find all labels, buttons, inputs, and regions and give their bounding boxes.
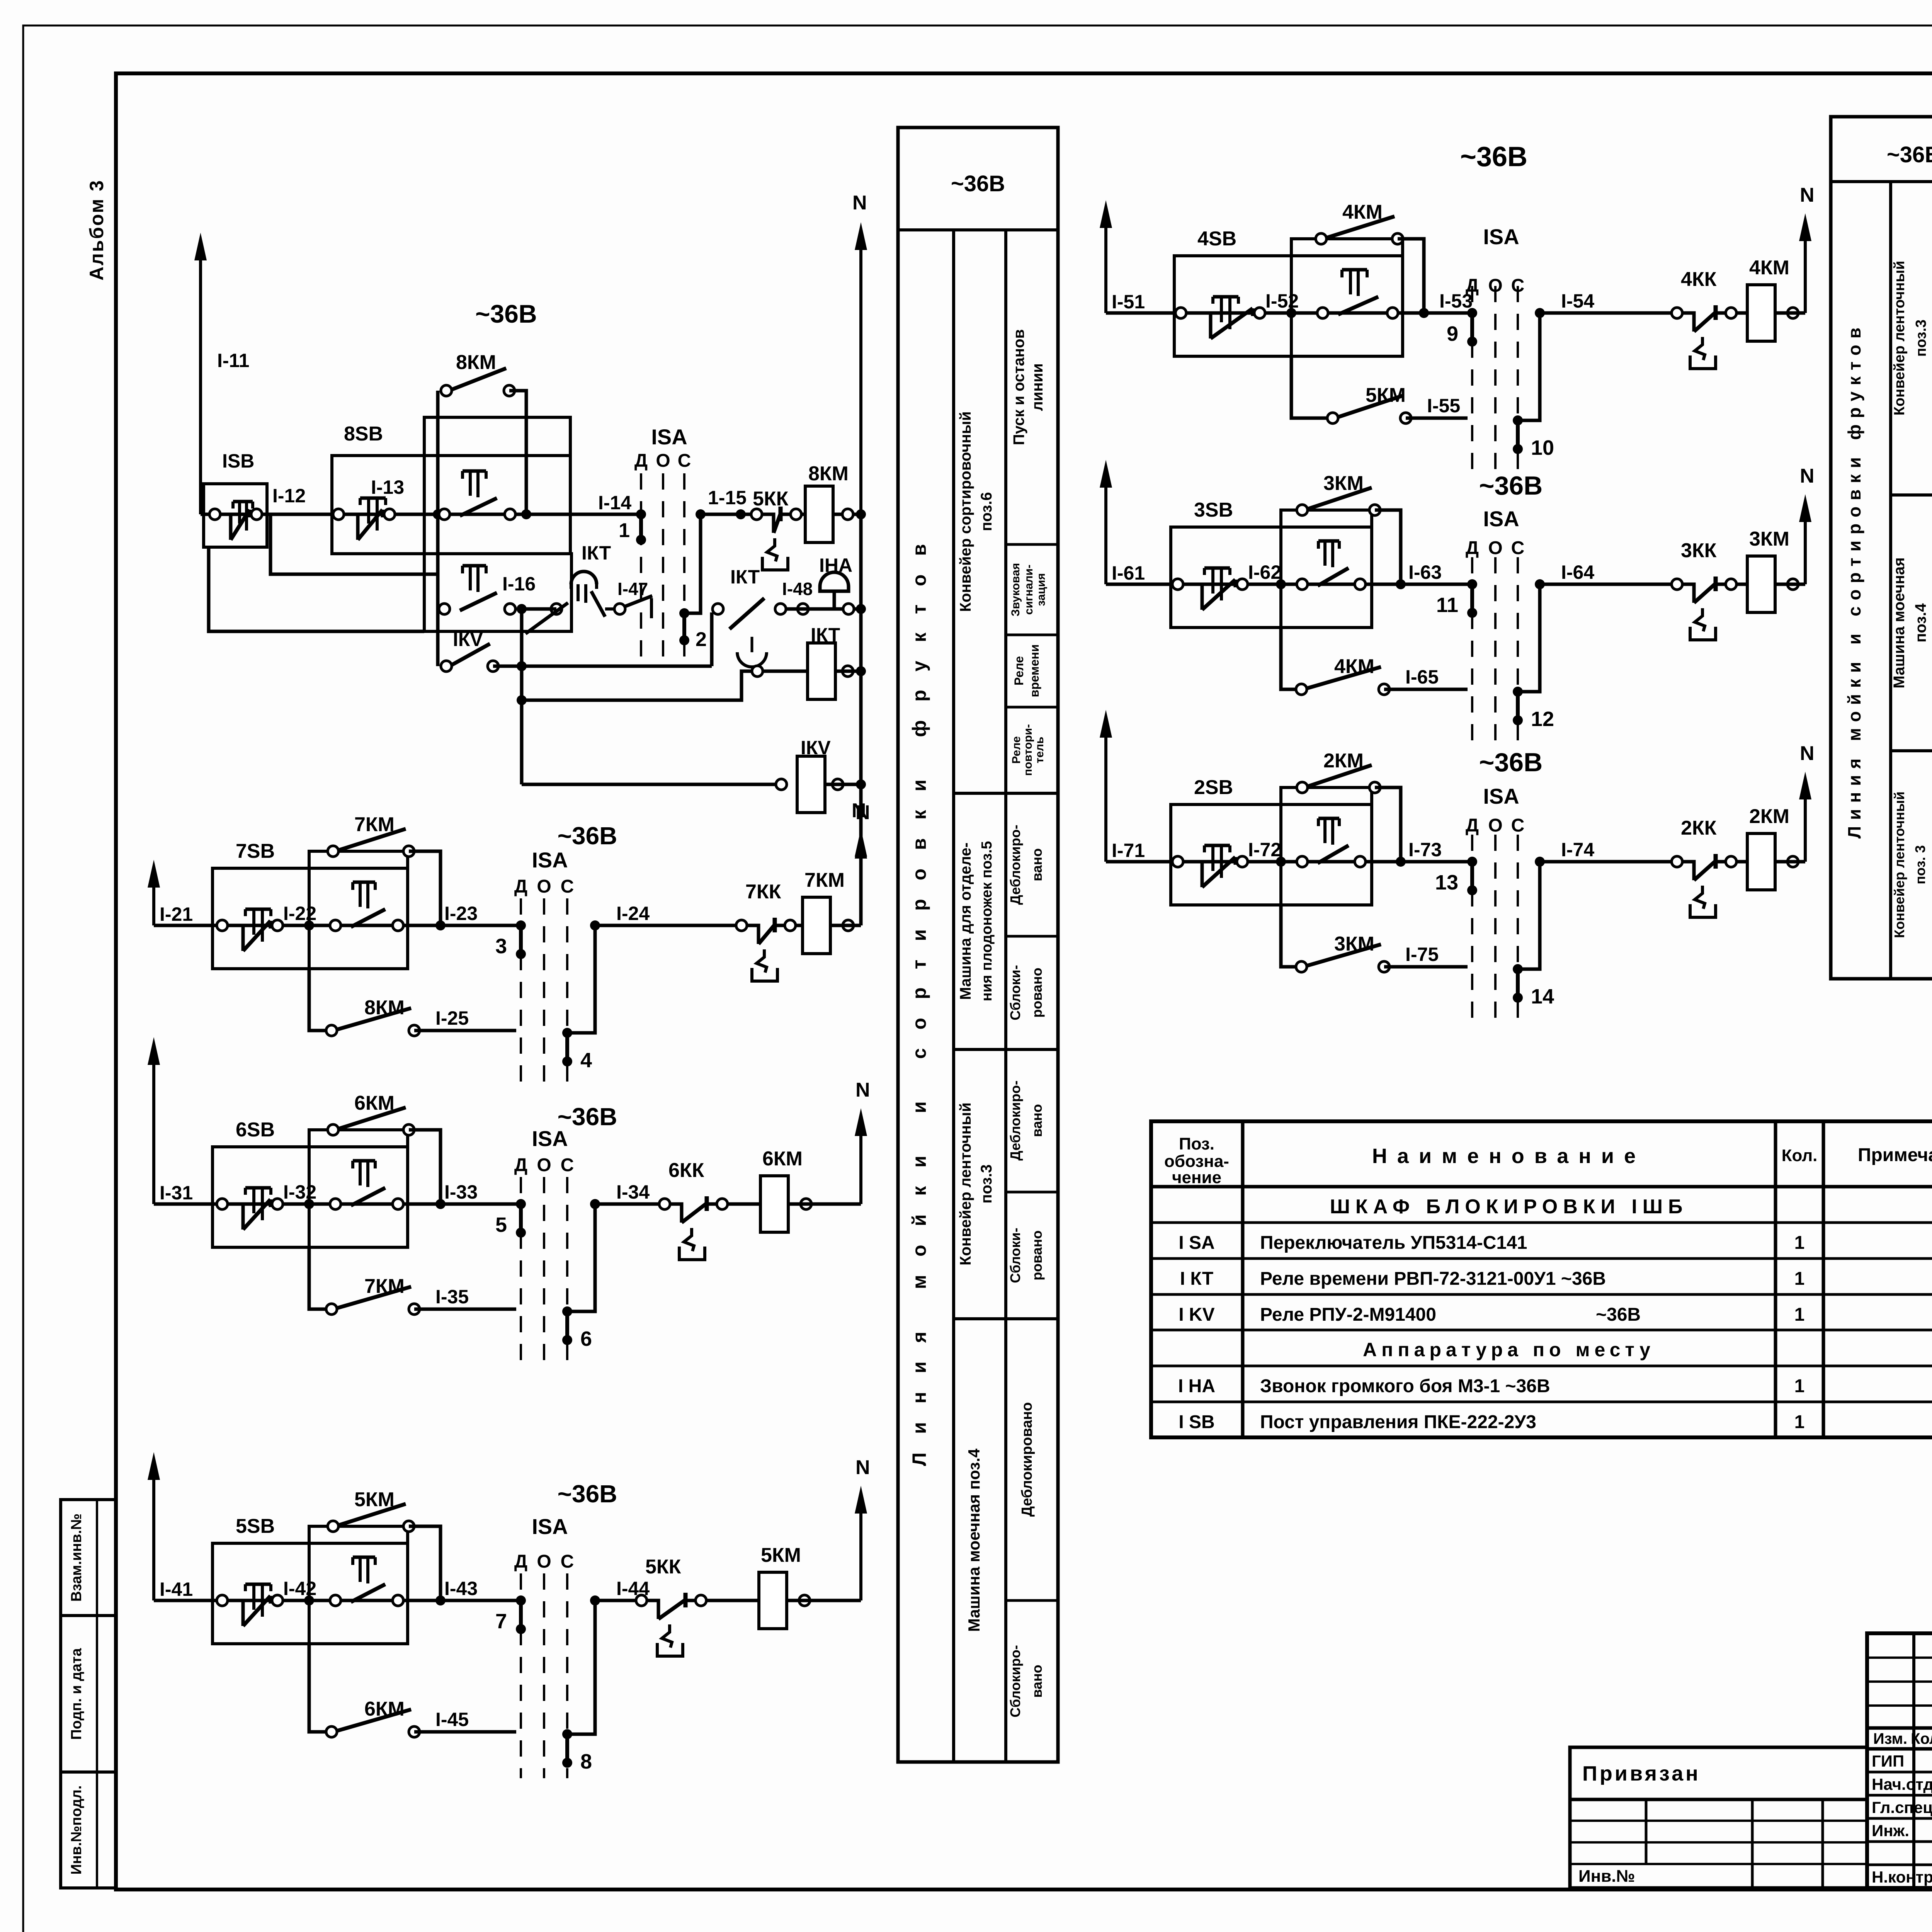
svg-text:Инж.: Инж. bbox=[1872, 1821, 1909, 1840]
svg-text:I-54: I-54 bbox=[1561, 290, 1594, 312]
svg-text:ISA: ISA bbox=[1483, 224, 1519, 249]
svg-text:I SB: I SB bbox=[1179, 1412, 1214, 1432]
svg-text:6КМ: 6КМ bbox=[354, 1092, 395, 1114]
svg-text:ISB: ISB bbox=[222, 450, 254, 472]
svg-text:I-61: I-61 bbox=[1112, 562, 1145, 584]
svg-text:6КМ: 6КМ bbox=[762, 1148, 803, 1170]
svg-text:чение: чение bbox=[1172, 1168, 1221, 1187]
svg-text:I-35: I-35 bbox=[435, 1286, 469, 1308]
svg-text:I-63: I-63 bbox=[1408, 561, 1442, 583]
svg-text:Аппаратура по месту: Аппаратура по месту bbox=[1363, 1339, 1655, 1361]
svg-text:3КМ: 3КМ bbox=[1334, 933, 1374, 955]
svg-text:Сблоки-: Сблоки- bbox=[1007, 965, 1023, 1020]
svg-text:Д: Д bbox=[1466, 815, 1479, 836]
svg-text:I КТ: I КТ bbox=[1180, 1269, 1213, 1289]
svg-text:4: 4 bbox=[580, 1049, 592, 1072]
svg-text:О: О bbox=[656, 451, 670, 471]
svg-text:ISA: ISA bbox=[1483, 784, 1519, 808]
svg-text:Деблокиро-: Деблокиро- bbox=[1007, 825, 1023, 905]
svg-text:Д: Д bbox=[1466, 538, 1479, 558]
svg-text:Кол.: Кол. bbox=[1782, 1146, 1818, 1165]
svg-text:6: 6 bbox=[580, 1327, 592, 1350]
svg-text:I-45: I-45 bbox=[435, 1709, 469, 1730]
svg-text:I-12: I-12 bbox=[272, 485, 306, 507]
svg-text:ШКАФ БЛОКИРОВКИ IШБ: ШКАФ БЛОКИРОВКИ IШБ bbox=[1330, 1196, 1688, 1218]
svg-text:I-41: I-41 bbox=[160, 1578, 193, 1600]
svg-text:I-23: I-23 bbox=[444, 903, 478, 924]
svg-text:3КК: 3КК bbox=[1681, 539, 1717, 562]
svg-text:Машина для отделе-: Машина для отделе- bbox=[957, 842, 974, 1000]
svg-text:I-51: I-51 bbox=[1112, 291, 1145, 313]
svg-text:3КМ: 3КМ bbox=[1323, 472, 1364, 495]
svg-text:7КМ: 7КМ bbox=[354, 813, 395, 836]
svg-text:6КК: 6КК bbox=[668, 1159, 704, 1182]
svg-text:времени: времени bbox=[1027, 644, 1041, 697]
svg-text:Деблокиро-: Деблокиро- bbox=[1007, 1080, 1023, 1160]
svg-text:4КМ: 4КМ bbox=[1334, 655, 1374, 678]
svg-text:I-52: I-52 bbox=[1265, 290, 1299, 312]
svg-text:IКV: IКV bbox=[453, 629, 483, 650]
svg-text:Сблоки-: Сблоки- bbox=[1007, 1228, 1023, 1283]
svg-text:~36В: ~36В bbox=[1887, 142, 1932, 167]
svg-text:7КК: 7КК bbox=[745, 881, 781, 903]
svg-text:Реле РПУ-2-М91400: Реле РПУ-2-М91400 bbox=[1260, 1304, 1436, 1325]
svg-text:2КМ: 2КМ bbox=[1323, 750, 1364, 772]
svg-text:Д: Д bbox=[514, 1551, 527, 1572]
svg-text:I-21: I-21 bbox=[160, 903, 193, 925]
svg-text:Конвейер ленточный: Конвейер ленточный bbox=[1891, 791, 1907, 938]
svg-text:11: 11 bbox=[1436, 594, 1458, 617]
svg-text:ровано: ровано bbox=[1029, 968, 1045, 1017]
svg-text:I-25: I-25 bbox=[435, 1007, 469, 1029]
svg-text:вано: вано bbox=[1029, 848, 1045, 881]
svg-text:Звуковая: Звуковая bbox=[1009, 563, 1022, 616]
svg-text:I-31: I-31 bbox=[160, 1182, 193, 1204]
svg-text:~36В: ~36В bbox=[475, 299, 537, 328]
svg-text:ISA: ISA bbox=[651, 425, 687, 449]
svg-text:ISA: ISA bbox=[532, 1514, 568, 1539]
svg-text:6КМ: 6КМ bbox=[364, 1698, 405, 1720]
svg-text:7SB: 7SB bbox=[236, 840, 275, 862]
svg-text:2КМ: 2КМ bbox=[1749, 805, 1789, 828]
svg-text:I-42: I-42 bbox=[283, 1578, 316, 1599]
svg-text:Линия мойки и сортировки ф: Линия мойки и сортировки фруктов bbox=[908, 526, 930, 1466]
svg-text:13: 13 bbox=[1435, 871, 1458, 894]
svg-text:поз.3: поз.3 bbox=[978, 1164, 995, 1203]
svg-text:5КМ: 5КМ bbox=[761, 1544, 801, 1566]
svg-text:С: С bbox=[1511, 815, 1525, 836]
svg-text:1: 1 bbox=[1794, 1233, 1805, 1253]
svg-text:N: N bbox=[1800, 465, 1815, 487]
svg-text:5SB: 5SB bbox=[236, 1515, 275, 1537]
svg-text:Переключатель УП5314-С141: Переключатель УП5314-С141 bbox=[1260, 1233, 1527, 1253]
svg-text:1-15: 1-15 bbox=[708, 487, 747, 509]
svg-text:О: О bbox=[537, 1551, 551, 1572]
svg-text:вано: вано bbox=[1029, 1665, 1045, 1697]
svg-text:С: С bbox=[1511, 538, 1525, 558]
svg-text:Изм.: Изм. bbox=[1873, 1730, 1907, 1747]
svg-text:~36В: ~36В bbox=[1479, 471, 1543, 500]
svg-text:2SB: 2SB bbox=[1194, 776, 1233, 799]
svg-text:4КК: 4КК bbox=[1681, 268, 1717, 291]
svg-text:4КМ: 4КМ bbox=[1342, 201, 1383, 223]
svg-text:поз.3: поз.3 bbox=[1913, 320, 1929, 357]
svg-text:Конвейер сортировочный: Конвейер сортировочный bbox=[957, 412, 974, 612]
svg-text:Д: Д bbox=[514, 876, 527, 897]
svg-text:N: N bbox=[1800, 742, 1815, 765]
svg-text:Поз.: Поз. bbox=[1179, 1134, 1214, 1153]
svg-text:I-32: I-32 bbox=[283, 1181, 316, 1203]
svg-text:Звонок громкого боя М3-1 ~36В: Звонок громкого боя М3-1 ~36В bbox=[1260, 1376, 1550, 1396]
svg-text:N: N bbox=[852, 799, 866, 822]
svg-text:С: С bbox=[1511, 276, 1525, 296]
svg-text:I-73: I-73 bbox=[1408, 839, 1442, 861]
svg-text:7: 7 bbox=[495, 1610, 507, 1633]
svg-text:ISA: ISA bbox=[532, 848, 568, 872]
svg-text:3КМ: 3КМ bbox=[1749, 528, 1789, 550]
svg-text:9: 9 bbox=[1447, 322, 1458, 345]
svg-text:I-14: I-14 bbox=[598, 492, 631, 514]
svg-text:ISA: ISA bbox=[1483, 507, 1519, 531]
svg-text:Сблокиро-: Сблокиро- bbox=[1007, 1645, 1023, 1717]
svg-text:12: 12 bbox=[1531, 707, 1554, 731]
svg-text:О: О bbox=[537, 1155, 551, 1175]
svg-text:4КМ: 4КМ bbox=[1749, 257, 1789, 279]
svg-text:О: О bbox=[1488, 276, 1502, 296]
svg-text:~36В: ~36В bbox=[558, 1480, 617, 1508]
svg-text:С: С bbox=[561, 1551, 574, 1572]
svg-text:I-34: I-34 bbox=[616, 1181, 650, 1203]
svg-text:I SA: I SA bbox=[1179, 1233, 1214, 1253]
svg-text:Инв.№: Инв.№ bbox=[1578, 1867, 1635, 1886]
svg-text:I-16: I-16 bbox=[502, 573, 536, 595]
svg-text:N: N bbox=[1800, 184, 1815, 206]
svg-text:4SB: 4SB bbox=[1197, 228, 1236, 250]
svg-text:ГИП: ГИП bbox=[1872, 1752, 1904, 1770]
svg-text:линии: линии bbox=[1029, 363, 1046, 411]
svg-text:I-65: I-65 bbox=[1405, 666, 1439, 688]
svg-text:7КМ: 7КМ bbox=[804, 869, 845, 891]
svg-text:С: С bbox=[561, 876, 574, 897]
svg-text:N: N bbox=[855, 1079, 870, 1101]
svg-text:2: 2 bbox=[696, 628, 707, 651]
svg-text:поз. 3: поз. 3 bbox=[1912, 845, 1928, 884]
svg-text:I НА: I НА bbox=[1178, 1376, 1215, 1396]
svg-text:N: N bbox=[855, 1456, 870, 1479]
svg-text:тель: тель bbox=[1033, 737, 1046, 764]
svg-text:8КМ: 8КМ bbox=[364, 997, 405, 1019]
svg-text:зация: зация bbox=[1035, 573, 1048, 606]
svg-text:Реле: Реле bbox=[1010, 736, 1023, 764]
svg-text:~36В: ~36В bbox=[558, 822, 617, 850]
svg-text:N: N bbox=[852, 192, 867, 214]
svg-text:ровано: ровано bbox=[1029, 1230, 1045, 1280]
svg-text:Конвейер ленточный: Конвейер ленточный bbox=[957, 1102, 974, 1265]
svg-text:8SB: 8SB bbox=[344, 423, 383, 445]
svg-text:IКV: IКV bbox=[801, 737, 831, 759]
svg-text:I-13: I-13 bbox=[371, 476, 404, 498]
svg-text:10: 10 bbox=[1531, 436, 1554, 459]
svg-text:Пуск и останов: Пуск и останов bbox=[1010, 329, 1027, 445]
svg-text:1: 1 bbox=[1794, 1412, 1805, 1432]
svg-text:Д: Д bbox=[1466, 276, 1479, 296]
svg-text:1: 1 bbox=[1794, 1376, 1805, 1396]
svg-text:IКТ: IКТ bbox=[730, 566, 760, 588]
svg-text:I-24: I-24 bbox=[616, 903, 650, 924]
svg-text:I-55: I-55 bbox=[1427, 395, 1460, 417]
svg-text:Конвейер ленточный: Конвейер ленточный bbox=[1891, 261, 1908, 416]
svg-text:~36В: ~36В bbox=[1479, 748, 1543, 777]
svg-text:7КМ: 7КМ bbox=[364, 1275, 405, 1298]
svg-text:Взам.инв.№: Взам.инв.№ bbox=[68, 1514, 85, 1602]
svg-text:ния плодоножек поз.5: ния плодоножек поз.5 bbox=[979, 841, 995, 1002]
svg-text:8КМ: 8КМ bbox=[808, 463, 849, 485]
svg-text:I-43: I-43 bbox=[444, 1578, 478, 1599]
svg-text:IКТ: IКТ bbox=[582, 542, 611, 564]
svg-text:Кол.уч: Кол.уч bbox=[1911, 1730, 1932, 1747]
svg-text:5КК: 5КК bbox=[753, 488, 789, 510]
svg-text:I-22: I-22 bbox=[283, 903, 316, 924]
svg-text:О: О bbox=[537, 876, 551, 897]
svg-text:3: 3 bbox=[495, 935, 507, 958]
svg-text:I-62: I-62 bbox=[1248, 561, 1281, 583]
svg-text:Машина моечная: Машина моечная bbox=[1891, 557, 1908, 688]
svg-text:IКТ: IКТ bbox=[811, 624, 840, 646]
svg-text:Реле: Реле bbox=[1012, 656, 1026, 685]
svg-text:I-33: I-33 bbox=[444, 1181, 478, 1203]
svg-text:6SB: 6SB bbox=[236, 1119, 275, 1141]
svg-text:С: С bbox=[678, 451, 691, 471]
svg-text:Реле времени РВП-72-3121-00У1: Реле времени РВП-72-3121-00У1 ~36В bbox=[1260, 1269, 1606, 1289]
svg-text:~36В: ~36В bbox=[1596, 1304, 1641, 1325]
svg-text:I-75: I-75 bbox=[1405, 944, 1439, 965]
svg-text:Инв.№подл.: Инв.№подл. bbox=[68, 1785, 85, 1874]
svg-text:1: 1 bbox=[1794, 1269, 1805, 1289]
svg-text:С: С bbox=[561, 1155, 574, 1175]
svg-text:I-74: I-74 bbox=[1561, 839, 1594, 861]
svg-text:Нач.отд.: Нач.отд. bbox=[1872, 1775, 1932, 1793]
svg-text:поз.4: поз.4 bbox=[1912, 603, 1929, 643]
svg-text:сигнали-: сигнали- bbox=[1022, 565, 1035, 615]
svg-text:5КК: 5КК bbox=[645, 1556, 681, 1578]
svg-text:I-64: I-64 bbox=[1561, 561, 1594, 583]
svg-text:IНА: IНА bbox=[819, 554, 852, 576]
svg-text:повтори-: повтори- bbox=[1022, 724, 1034, 776]
svg-text:2КК: 2КК bbox=[1681, 817, 1717, 839]
svg-text:Наименование: Наименование bbox=[1372, 1145, 1646, 1168]
svg-text:8КМ: 8КМ bbox=[456, 351, 496, 374]
svg-text:Линия мойки и сортировки фрукт: Линия мойки и сортировки фруктов bbox=[1844, 321, 1864, 838]
svg-text:ISA: ISA bbox=[532, 1126, 568, 1151]
svg-text:~36В: ~36В bbox=[1460, 141, 1527, 172]
svg-text:I-71: I-71 bbox=[1112, 840, 1145, 861]
svg-text:1: 1 bbox=[1794, 1304, 1805, 1325]
svg-text:3SB: 3SB bbox=[1194, 499, 1233, 521]
svg-text:Гл.спец.: Гл.спец. bbox=[1872, 1798, 1932, 1816]
svg-text:I KV: I KV bbox=[1179, 1304, 1214, 1325]
svg-text:О: О bbox=[1488, 538, 1502, 558]
svg-text:Д: Д bbox=[634, 451, 648, 471]
svg-text:О: О bbox=[1488, 815, 1502, 836]
svg-text:Деблокировано: Деблокировано bbox=[1019, 1402, 1035, 1517]
svg-text:5: 5 bbox=[495, 1213, 507, 1236]
svg-text:Альбом 3: Альбом 3 bbox=[86, 179, 107, 281]
svg-text:8: 8 bbox=[580, 1750, 592, 1773]
svg-text:Д: Д bbox=[514, 1155, 527, 1175]
svg-text:~36В: ~36В bbox=[951, 171, 1005, 196]
svg-text:14: 14 bbox=[1531, 985, 1554, 1008]
svg-text:поз.6: поз.6 bbox=[978, 492, 995, 531]
svg-text:Подп. и дата: Подп. и дата bbox=[68, 1648, 85, 1740]
svg-text:Машина моечная поз.4: Машина моечная поз.4 bbox=[965, 1448, 983, 1632]
svg-text:Н.контр.: Н.контр. bbox=[1872, 1868, 1932, 1886]
svg-text:1: 1 bbox=[619, 519, 630, 542]
svg-text:5КМ: 5КМ bbox=[1366, 384, 1406, 406]
svg-text:Пост управления ПКЕ-222-2У3: Пост управления ПКЕ-222-2У3 bbox=[1260, 1412, 1536, 1432]
svg-text:I-72: I-72 bbox=[1248, 839, 1281, 861]
svg-text:5КМ: 5КМ bbox=[354, 1488, 395, 1511]
svg-text:I-47: I-47 bbox=[617, 579, 648, 599]
svg-text:вано: вано bbox=[1029, 1104, 1045, 1137]
svg-text:I-11: I-11 bbox=[217, 350, 249, 371]
svg-text:I-48: I-48 bbox=[782, 579, 813, 599]
svg-text:Примечание: Примечание bbox=[1858, 1145, 1932, 1165]
svg-text:Привязан: Привязан bbox=[1582, 1762, 1701, 1785]
